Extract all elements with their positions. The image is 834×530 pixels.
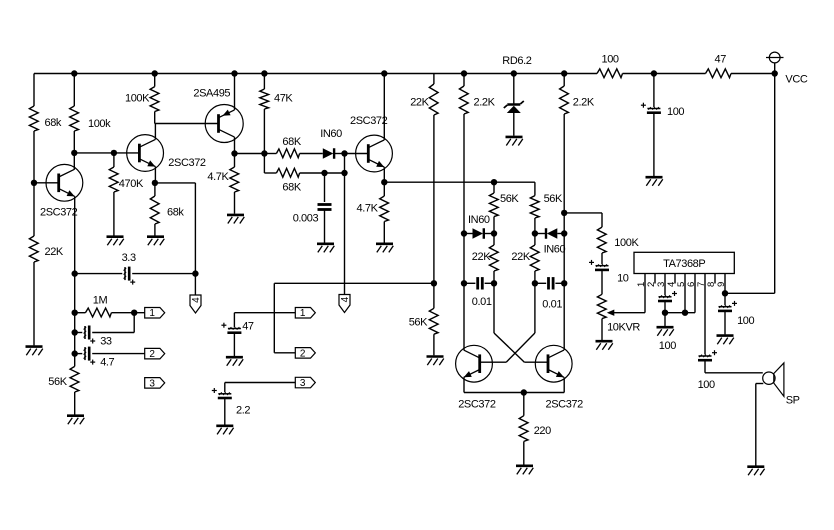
resistor 100 (rail, horizontal) (597, 69, 623, 78)
svg-text:9: 9 (716, 282, 727, 287)
node Q2 emitter (152, 180, 158, 186)
node rail/100K (152, 70, 158, 76)
label 220 (534, 425, 551, 437)
ground below speaker (747, 467, 764, 476)
wire rail to 2.2K right (563, 74, 565, 87)
svg-text:2.2K: 2.2K (474, 97, 496, 109)
pin 8 of U1 (714, 274, 716, 284)
wire 470K top lead (113, 153, 115, 167)
pin 4 number label (666, 282, 677, 287)
resistor 2.2K (left) (459, 86, 468, 114)
wire 22K mid down (433, 115, 435, 283)
wire col2 down to cross (534, 283, 536, 333)
terminal 2 (left connector) (145, 348, 165, 360)
wire collector node to 47K node (235, 153, 265, 155)
svg-text:22K: 22K (410, 97, 429, 109)
label 2.2 (236, 405, 250, 417)
wire pin bus 3-5-6 (665, 312, 695, 314)
svg-text:47: 47 (715, 54, 727, 66)
label 2.2K right (573, 97, 595, 109)
node 47K bottom (261, 150, 267, 156)
pin 1 number label (636, 282, 647, 287)
svg-text:2SA495: 2SA495 (193, 88, 230, 100)
svg-text:10KVR: 10KVR (607, 322, 640, 334)
wire Q3 collector up to rail (383, 74, 385, 140)
wire Q5 emitter down (563, 377, 565, 392)
pin 7 number label (696, 282, 707, 287)
wire feedback node down to terminal 4 (344, 173, 346, 295)
ground below right 4.7K (376, 244, 393, 253)
svg-text:2SC372: 2SC372 (350, 115, 388, 127)
wire col1 down to cross (493, 283, 495, 333)
node feedback junction (341, 170, 347, 176)
svg-text:0.003: 0.003 (293, 213, 319, 225)
wire 4.7K right to ground (383, 222, 385, 243)
node terminal 1 junction (131, 310, 137, 316)
pin 5 number label (676, 282, 687, 287)
wire 0.01 right lead b (555, 282, 564, 284)
ground below mid 56K (427, 357, 444, 366)
label 100k (88, 118, 111, 130)
wire 33 cap up to terminal 1 node (133, 313, 135, 333)
svg-text:2SC372: 2SC372 (168, 157, 206, 169)
label 0.01 left (472, 296, 492, 308)
wire 3.3 cap right lead (132, 273, 195, 275)
zener diode RD6.2 (504, 101, 524, 113)
svg-text:100: 100 (698, 379, 715, 391)
label 56K col1 (500, 193, 519, 205)
wire IN60 right cathode lead (535, 233, 545, 235)
wire Q1 collector node to 470K node (74, 152, 139, 154)
resistor 220 (519, 416, 528, 442)
ground below 2.2 cap (216, 426, 233, 435)
wire VCC to pin9 horizontal (725, 292, 775, 294)
label 100 output (698, 379, 715, 391)
wire cross diagonal col1 to Q5 base (494, 333, 524, 362)
terminal 4 (left connector) (190, 295, 202, 313)
wire 2.2K left down to Q4 collector (463, 114, 465, 350)
diode IN60 (top) (323, 148, 334, 159)
wire 0.003 to ground (324, 210, 326, 243)
node 4.7 cap junction (72, 350, 78, 356)
node 0.01 right cap left (532, 280, 538, 286)
capacitor 100 (output) (698, 350, 717, 360)
wire 100k to Q1 collector (73, 131, 75, 169)
wire 100K to 10 cap (601, 253, 603, 264)
terminal 4 (middle connector) (339, 295, 351, 313)
label 100 pin3 (659, 340, 676, 352)
label 68k (45, 117, 62, 129)
svg-text:100K: 100K (614, 237, 639, 249)
svg-text:1: 1 (149, 308, 155, 319)
ground below 220 (516, 466, 533, 475)
label 2SC372 Q1 (40, 207, 78, 219)
label 1M (93, 295, 108, 307)
svg-text:47: 47 (242, 321, 254, 333)
wire Q1 base (34, 182, 59, 184)
wire output cap down (704, 361, 706, 373)
wire terminal2 mid feed horizontal (274, 282, 434, 284)
resistor 100k (70, 106, 79, 131)
label 2SA495 (193, 88, 230, 100)
node terminal2 feed junction (431, 280, 437, 286)
pin 7 of U1 (704, 274, 706, 355)
label 47 (242, 321, 254, 333)
wire 4.7 cap to terminal 2 (92, 353, 145, 355)
wire 56K col1 top lead (493, 182, 495, 193)
resistor 1M (85, 308, 111, 317)
node output takeoff (561, 210, 567, 216)
svg-text:22K: 22K (45, 246, 64, 258)
terminal 1 (middle connector) (295, 308, 315, 320)
svg-text:47K: 47K (274, 93, 293, 105)
wire VCC vertical down right side (774, 74, 776, 294)
svg-text:22K: 22K (511, 251, 530, 263)
pin 8 number label (706, 282, 717, 287)
svg-text:3.3: 3.3 (122, 252, 136, 264)
capacitor 0.003 (318, 205, 332, 210)
svg-text:100: 100 (659, 340, 676, 352)
resistor 56K (Q1 emitter) (70, 366, 79, 392)
node rail/100 cap (651, 70, 657, 76)
wire terminal2 mid vertical (273, 283, 275, 353)
label 100 pin9 (737, 315, 754, 327)
wire 4.7K left top lead (234, 154, 236, 168)
node rail/47K (261, 70, 267, 76)
node rail/2SA495 emitter (231, 70, 237, 76)
wire rail to 100K (154, 74, 156, 87)
resistor 470K (109, 167, 118, 192)
svg-text:4: 4 (340, 296, 351, 302)
label 100K (125, 93, 150, 105)
label 2SC372 Q2 (168, 157, 206, 169)
label 33 (100, 336, 112, 348)
potentiometer 10KVR wiper arrow (607, 310, 645, 316)
svg-text:22K: 22K (472, 251, 491, 263)
capacitor 100 (pin3) (658, 291, 677, 301)
node 0.01 right cap right (561, 280, 567, 286)
wire terminal1 mid to 47 cap (234, 312, 295, 314)
resistor 68K (upper) (276, 149, 299, 158)
node 56K-1/22K-1 junction (491, 230, 497, 236)
node 56K-2/22K-2 junction (532, 230, 538, 236)
node pin5 bus (682, 310, 688, 316)
wire 22K col1 to 0.01 node (493, 271, 495, 283)
svg-text:0.01: 0.01 (542, 299, 562, 311)
wire 2.2 cap to ground (224, 398, 226, 424)
wire rail between 100 and 47 resistors (623, 73, 706, 75)
svg-text:2.2: 2.2 (236, 405, 250, 417)
wire pin3 node to ground (664, 313, 666, 326)
wire pin3 cap to node (664, 301, 666, 312)
svg-text:100k: 100k (88, 118, 111, 130)
node 0.01 left cap right (491, 280, 497, 286)
svg-text:56K: 56K (409, 317, 428, 329)
terminal 2 (middle connector) (295, 348, 315, 360)
wire 2SA495 emitter to rail (234, 74, 236, 110)
pin 5 of U1 (684, 274, 686, 313)
svg-text:VCC: VCC (785, 74, 807, 86)
wire 56K col1 to diode node (493, 217, 495, 234)
wire Q3 base (345, 153, 369, 155)
node terminal 4 left junction (192, 270, 198, 276)
node rail/Q3 collector (381, 70, 387, 76)
svg-text:RD6.2: RD6.2 (502, 55, 531, 67)
svg-text:4.7K: 4.7K (357, 203, 379, 215)
wire terminal2 mid lead (274, 352, 295, 354)
wire 33 cap left lead (75, 332, 83, 334)
capacitor 33 (84, 326, 96, 344)
wire IN60 right anode lead (557, 233, 564, 235)
wire terminal3 mid lead (225, 382, 295, 384)
wire rail cap lead (653, 74, 655, 108)
ground below left 4.7K (227, 215, 244, 224)
wire 56K mid to ground (433, 334, 435, 355)
wire 4.7K right top lead (383, 182, 385, 196)
label 100 for rail resistor (602, 54, 619, 66)
label IN60 right (544, 244, 566, 256)
wire 0.01 left lead b (485, 282, 494, 284)
node rail/zener (511, 70, 517, 76)
wire Q1 emitter down (74, 196, 76, 366)
svg-text:56K: 56K (500, 193, 519, 205)
capacitor 3.3 (124, 267, 136, 285)
node pin9 junction (722, 290, 728, 296)
resistor 4.7K (Q3 emitter) (380, 196, 389, 222)
wire pin9 cap to ground (724, 311, 726, 334)
wire 22K to ground (33, 262, 35, 345)
IC U1 TA7368P (634, 252, 734, 273)
svg-text:TA7368P: TA7368P (663, 258, 705, 270)
wire 68K upper to diode (300, 153, 323, 155)
label 68K lower (282, 182, 301, 194)
resistor 68k (Q2 emitter) (150, 196, 159, 224)
wire 0.01 left lead a (464, 282, 475, 284)
ground below 470K (107, 237, 124, 246)
svg-text:4.7K: 4.7K (207, 171, 229, 183)
label 4.7 (100, 357, 114, 369)
wire 2SA495 collector down (234, 137, 236, 153)
pin 2 number label (646, 282, 657, 287)
node VCC rail junction (772, 70, 778, 76)
pin 2 of U1 (654, 274, 656, 284)
ground below 47 cap (226, 357, 243, 366)
label 68K upper (282, 136, 301, 148)
svg-text:2SC372: 2SC372 (40, 207, 78, 219)
wire 3.3 cap left lead (75, 273, 123, 275)
terminal VCC (766, 52, 784, 73)
svg-text:56K: 56K (48, 376, 67, 388)
wire Q2 emitter down (154, 167, 156, 183)
wire Q4 base (480, 361, 506, 363)
wire supply cap to ground (653, 113, 655, 176)
ground below left 22K (26, 347, 43, 356)
label 22K col1 (472, 251, 491, 263)
svg-text:SP: SP (786, 395, 800, 407)
label 2.2K left (474, 97, 496, 109)
label 0.003 (293, 213, 319, 225)
svg-text:68K: 68K (282, 182, 301, 194)
svg-text:100: 100 (737, 315, 754, 327)
ground below zener (506, 137, 523, 146)
svg-text:100: 100 (667, 106, 684, 118)
wire 220 to ground (523, 441, 525, 464)
wire rail to 22K mid (433, 74, 435, 85)
svg-text:68k: 68k (167, 207, 184, 219)
label 22K left (45, 246, 64, 258)
capacitor 100 (pin9) (718, 301, 737, 311)
capacitor 10 (589, 260, 609, 270)
ground below pin9 cap (717, 336, 734, 345)
wire Q4 emitter down (463, 377, 465, 392)
capacitor 100 (supply filter) (641, 103, 661, 113)
resistor 100K (volume feed) (597, 227, 606, 253)
resistor 56K (column 2) (530, 196, 539, 218)
svg-text:10: 10 (617, 273, 629, 285)
svg-text:100K: 100K (125, 93, 150, 105)
wire rail to 47K (263, 74, 265, 90)
wire 47 cap to ground (233, 333, 235, 356)
wire top supply rail left segment (34, 73, 597, 75)
resistor 56K (mid) (429, 308, 438, 334)
wire 56K to ground (74, 392, 76, 415)
label 56K left (48, 376, 67, 388)
node 0.01 left cap left (461, 280, 467, 286)
wire 56K col2 top lead (534, 182, 536, 195)
capacitor 4.7 (84, 347, 96, 365)
svg-text:2: 2 (300, 348, 306, 359)
wire Q3 emitter down (383, 167, 385, 182)
wire 2.2K right down to Q5 collector (563, 114, 565, 350)
terminal 1 (left connector) (145, 308, 165, 320)
resistor 2.2K (right) (560, 86, 569, 114)
pin 1 of U1 (644, 274, 646, 313)
label 10 (617, 273, 629, 285)
svg-text:IN60: IN60 (544, 244, 566, 256)
wire to 220 resistor (523, 393, 525, 416)
wire rail right segment to VCC node (731, 73, 775, 75)
wire to 68K lower (264, 172, 276, 174)
svg-text:68K: 68K (282, 136, 301, 148)
svg-text:2SC372: 2SC372 (458, 399, 496, 411)
label VCC (785, 74, 807, 86)
label IN60 left (468, 214, 490, 226)
wire 100K to T junction (154, 112, 156, 124)
wire T junction to 2SA495 base (155, 123, 219, 125)
label 4.7K right (357, 203, 379, 215)
wire output takeoff to 100K (564, 212, 602, 214)
node 33 cap junction (72, 329, 78, 335)
wire 33 cap right lead (92, 332, 134, 334)
label 0.01 right (542, 299, 562, 311)
wire common emitter bottom (464, 392, 564, 394)
svg-text:IN60: IN60 (320, 128, 342, 140)
wire 0.003 node to feedback node (325, 172, 345, 174)
ground below 0.003 (317, 244, 334, 253)
pin 6 of U1 (694, 274, 696, 313)
resistor 56K (column 1) (489, 193, 498, 217)
svg-text:1M: 1M (93, 295, 108, 307)
wire rail down to 68k (33, 74, 35, 107)
wire 10KVR to ground (601, 319, 603, 340)
capacitor 0.01 (left) (478, 277, 483, 289)
svg-text:4: 4 (191, 297, 202, 303)
wire 4.7 cap left lead (75, 353, 83, 355)
potentiometer 10KVR element (597, 294, 606, 318)
node IN60 left anode (461, 230, 467, 236)
wire IN60 left cathode lead (484, 233, 494, 235)
svg-text:1: 1 (300, 308, 306, 319)
capacitor 2.2 (212, 388, 232, 398)
wire down to terminal 4 row (194, 183, 196, 295)
label RD6.2 (502, 55, 531, 67)
wire to 68K upper (264, 153, 276, 155)
transistor Q5 2SC372 (multivibrator right) (535, 345, 572, 382)
node 3.3 cap junction (72, 270, 78, 276)
wire rail to zener (513, 74, 515, 105)
wire 2.2 cap down lead (224, 383, 226, 393)
diode IN60 (left) (473, 228, 484, 239)
resistor 22K (mid) (429, 84, 438, 115)
label 47K (274, 93, 293, 105)
ground below pin3 cap (657, 327, 674, 336)
wire 1M to terminal 1 (111, 312, 144, 314)
wire output cap to speaker (705, 372, 763, 374)
label 3.3 (122, 252, 136, 264)
svg-text:4.7: 4.7 (100, 357, 114, 369)
label 2SC372 Q5 (546, 399, 584, 411)
wire Q2 emitter to 68k top (154, 183, 156, 196)
svg-text:2: 2 (149, 349, 155, 360)
svg-text:0.01: 0.01 (472, 296, 492, 308)
svg-text:2SC372: 2SC372 (546, 399, 584, 411)
resistor 22K (column 1) (489, 245, 498, 271)
node Q1 base junction (31, 180, 37, 186)
svg-text:100: 100 (602, 54, 619, 66)
terminal 3 (middle connector) (295, 377, 315, 389)
ground below supply cap (646, 177, 663, 186)
wire rail to 100k (73, 74, 75, 107)
node rail/100k (71, 70, 77, 76)
wire rail to 2.2K left (463, 74, 465, 87)
svg-text:3: 3 (300, 378, 306, 389)
wire 0.003 top lead (324, 173, 326, 202)
transistor Q2 2SC372 (second amp) (127, 135, 164, 172)
resistor 47 (rail, horizontal) (706, 69, 732, 78)
node 1M junction (72, 310, 78, 316)
svg-text:220: 220 (534, 425, 551, 437)
wire 68k to 22K through Q1 base node (33, 131, 35, 236)
label 2SC372 Q4 (458, 399, 496, 411)
wire Q2 emitter node right (155, 182, 196, 184)
wire speaker return short (756, 383, 764, 385)
wire between Q3 base node and feedback node (344, 154, 346, 174)
ground below 10KVR (596, 341, 613, 350)
wire 470K to ground (113, 192, 115, 236)
wire diode to Q3 base node (334, 153, 344, 155)
wire 56K tops link (494, 181, 535, 183)
label 22K col2 (511, 251, 530, 263)
svg-text:56K: 56K (544, 193, 563, 205)
svg-text:2.2K: 2.2K (573, 97, 595, 109)
node Q3 base junction (341, 150, 347, 156)
wire zener to ground (513, 113, 515, 136)
wire 47K to 68K node (263, 109, 265, 154)
label 22K mid (410, 97, 429, 109)
label 2SC372 Q3 (350, 115, 388, 127)
wire 56K col2 to diode node (534, 218, 536, 234)
wire 68K lower to 0.003 node (300, 172, 325, 174)
